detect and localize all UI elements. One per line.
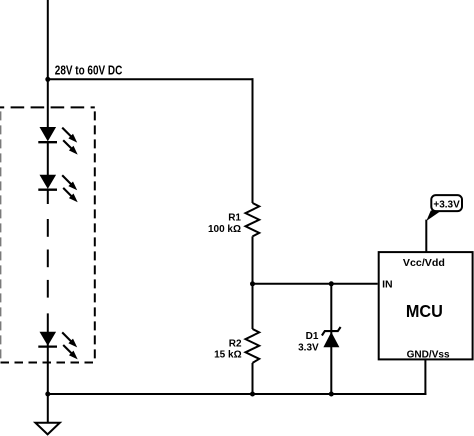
svg-text:GND/Vss: GND/Vss bbox=[407, 350, 450, 361]
svg-text:IN: IN bbox=[382, 279, 393, 291]
svg-text:+3.3V: +3.3V bbox=[433, 199, 460, 210]
svg-text:R2: R2 bbox=[229, 339, 242, 350]
svg-text:D1: D1 bbox=[306, 331, 319, 342]
svg-text:100 kΩ: 100 kΩ bbox=[208, 224, 241, 235]
svg-text:R1: R1 bbox=[228, 213, 241, 224]
svg-text:Vcc/Vdd: Vcc/Vdd bbox=[403, 257, 445, 269]
svg-text:28V to 60V DC: 28V to 60V DC bbox=[55, 64, 123, 78]
svg-text:3.3V: 3.3V bbox=[298, 342, 319, 353]
svg-text:15 kΩ: 15 kΩ bbox=[214, 350, 241, 361]
svg-text:MCU: MCU bbox=[406, 301, 443, 321]
